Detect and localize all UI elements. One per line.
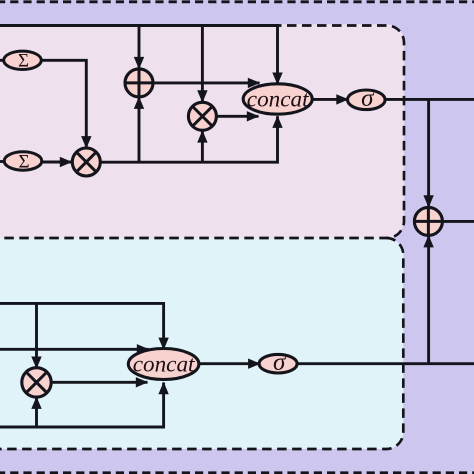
svg-text:σ: σ	[361, 85, 375, 112]
svg-text:Σ: Σ	[18, 51, 29, 72]
svg-text:Σ: Σ	[18, 151, 29, 172]
svg-text:concat: concat	[247, 86, 309, 112]
svg-text:concat: concat	[133, 352, 195, 378]
svg-text:σ: σ	[273, 349, 287, 376]
